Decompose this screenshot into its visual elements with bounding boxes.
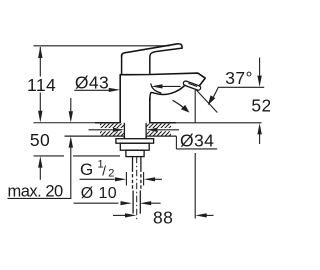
body-spout inner curve [151,84,161,93]
O34 label bracket [175,136,177,149]
body right edge lower [149,98,151,123]
svg-text:Ø34: Ø34 [180,130,214,150]
aerator vertical extension [194,90,196,123]
114 top arrow (up) [38,46,42,58]
handle top edge + nose [122,44,182,56]
deck bottom line / extension [65,135,125,137]
hole edges through deck [123,123,125,139]
G12 right arrow (left pointing) [144,177,155,181]
O34 deck dim line right [157,129,179,131]
svg-text:/: / [102,164,106,179]
svg-text:Ø43: Ø43 [75,72,109,92]
pipe dashed middle [132,169,134,191]
O43 right arrow shaft [162,85,181,87]
svg-text:114: 114 [27,75,56,95]
svg-text:max. 20: max. 20 [8,183,64,201]
lower block [126,150,144,156]
50 bottom arrow (up, below line) [38,156,42,168]
right vertical extension to 88 dim [194,153,196,219]
O10 right arrow shaft [151,202,161,204]
hatching left upper band [96,123,174,137]
O34 deck dim line left [89,129,114,131]
max20 top arrow (down, above deck line) [69,111,73,122]
dim 50 lower arrow shaft [39,167,41,180]
flow direction arc [173,100,186,109]
dim max20 upper arrow shaft [70,98,72,112]
washer flange [116,139,154,144]
O34 deck right arrow (left pointing) [146,128,157,132]
dimension line 114 [39,47,41,77]
88 left arrow (right pointing at pipe center) [125,213,136,217]
G12 left arrow (right pointing) [115,177,126,181]
stream reference line [196,90,217,113]
extension line 50 bottom (shank end level) [34,155,65,157]
O43 left arrow (right pointing at body) [109,88,120,92]
extension line top (height 114 reference at handle top) [34,45,170,47]
svg-text:50: 50 [30,130,50,150]
deck top line [34,122,96,124]
O43 right arrow (left pointing at body right edge) [151,84,162,88]
dim 52 upper shaft [259,58,261,77]
handle underside + front edge [150,48,182,74]
dim max20 lower arrow shaft + underline leader [70,147,72,199]
arrowheads (filled) [38,46,262,217]
svg-text:Ø 10: Ø 10 [81,185,117,202]
svg-text:2: 2 [108,167,114,179]
88 dim right shaft [206,214,214,216]
37 leader arrowhead (pointing down-left to stream line) [208,95,216,105]
O34 deck left arrow (right pointing) [113,128,124,132]
label G 1/2 [80,159,114,180]
G 1/2 extension verticals [125,172,127,186]
leader 37 degrees diagonal [213,87,218,97]
svg-text:37°: 37° [225,68,253,88]
114 bottom arrow (down) [38,111,42,123]
dim 52 extension line (aerator level) [218,86,264,88]
svg-text:52: 52 [251,95,270,115]
flow arrowhead (down-right) [181,105,190,113]
O10 right arrow (left pointing) [140,201,151,205]
O43 underline/leader [74,89,109,91]
pipe solid lower [132,191,134,214]
aerator inner line [189,84,197,87]
G 1/2 underline/leader [80,178,115,180]
centerline dash-dot [136,157,138,220]
handle left edge [121,55,123,74]
nut block [120,143,149,150]
O10 left arrow (right pointing) [121,201,132,205]
max20 bottom arrow (up, below deck bottom) [69,136,73,147]
88 right arrow (left pointing) [195,213,206,217]
svg-text:88: 88 [153,208,173,228]
neck below deck [123,136,125,139]
52 top arrow (down) [257,76,261,87]
52 bottom arrow (up) [257,123,261,134]
G 1/2 right arrow shaft [155,178,162,180]
aerator cap outline [183,81,200,90]
spout underside from aerator cap to body [150,85,185,100]
O10 underline/leader [74,202,119,204]
88 dim left shaft [113,214,126,216]
body left edge [119,75,121,123]
dim 52 lower shaft [259,134,261,145]
pipe solid upper [132,157,134,169]
shoulder + spout top + beak nose [120,73,205,86]
svg-text:G: G [80,160,93,179]
